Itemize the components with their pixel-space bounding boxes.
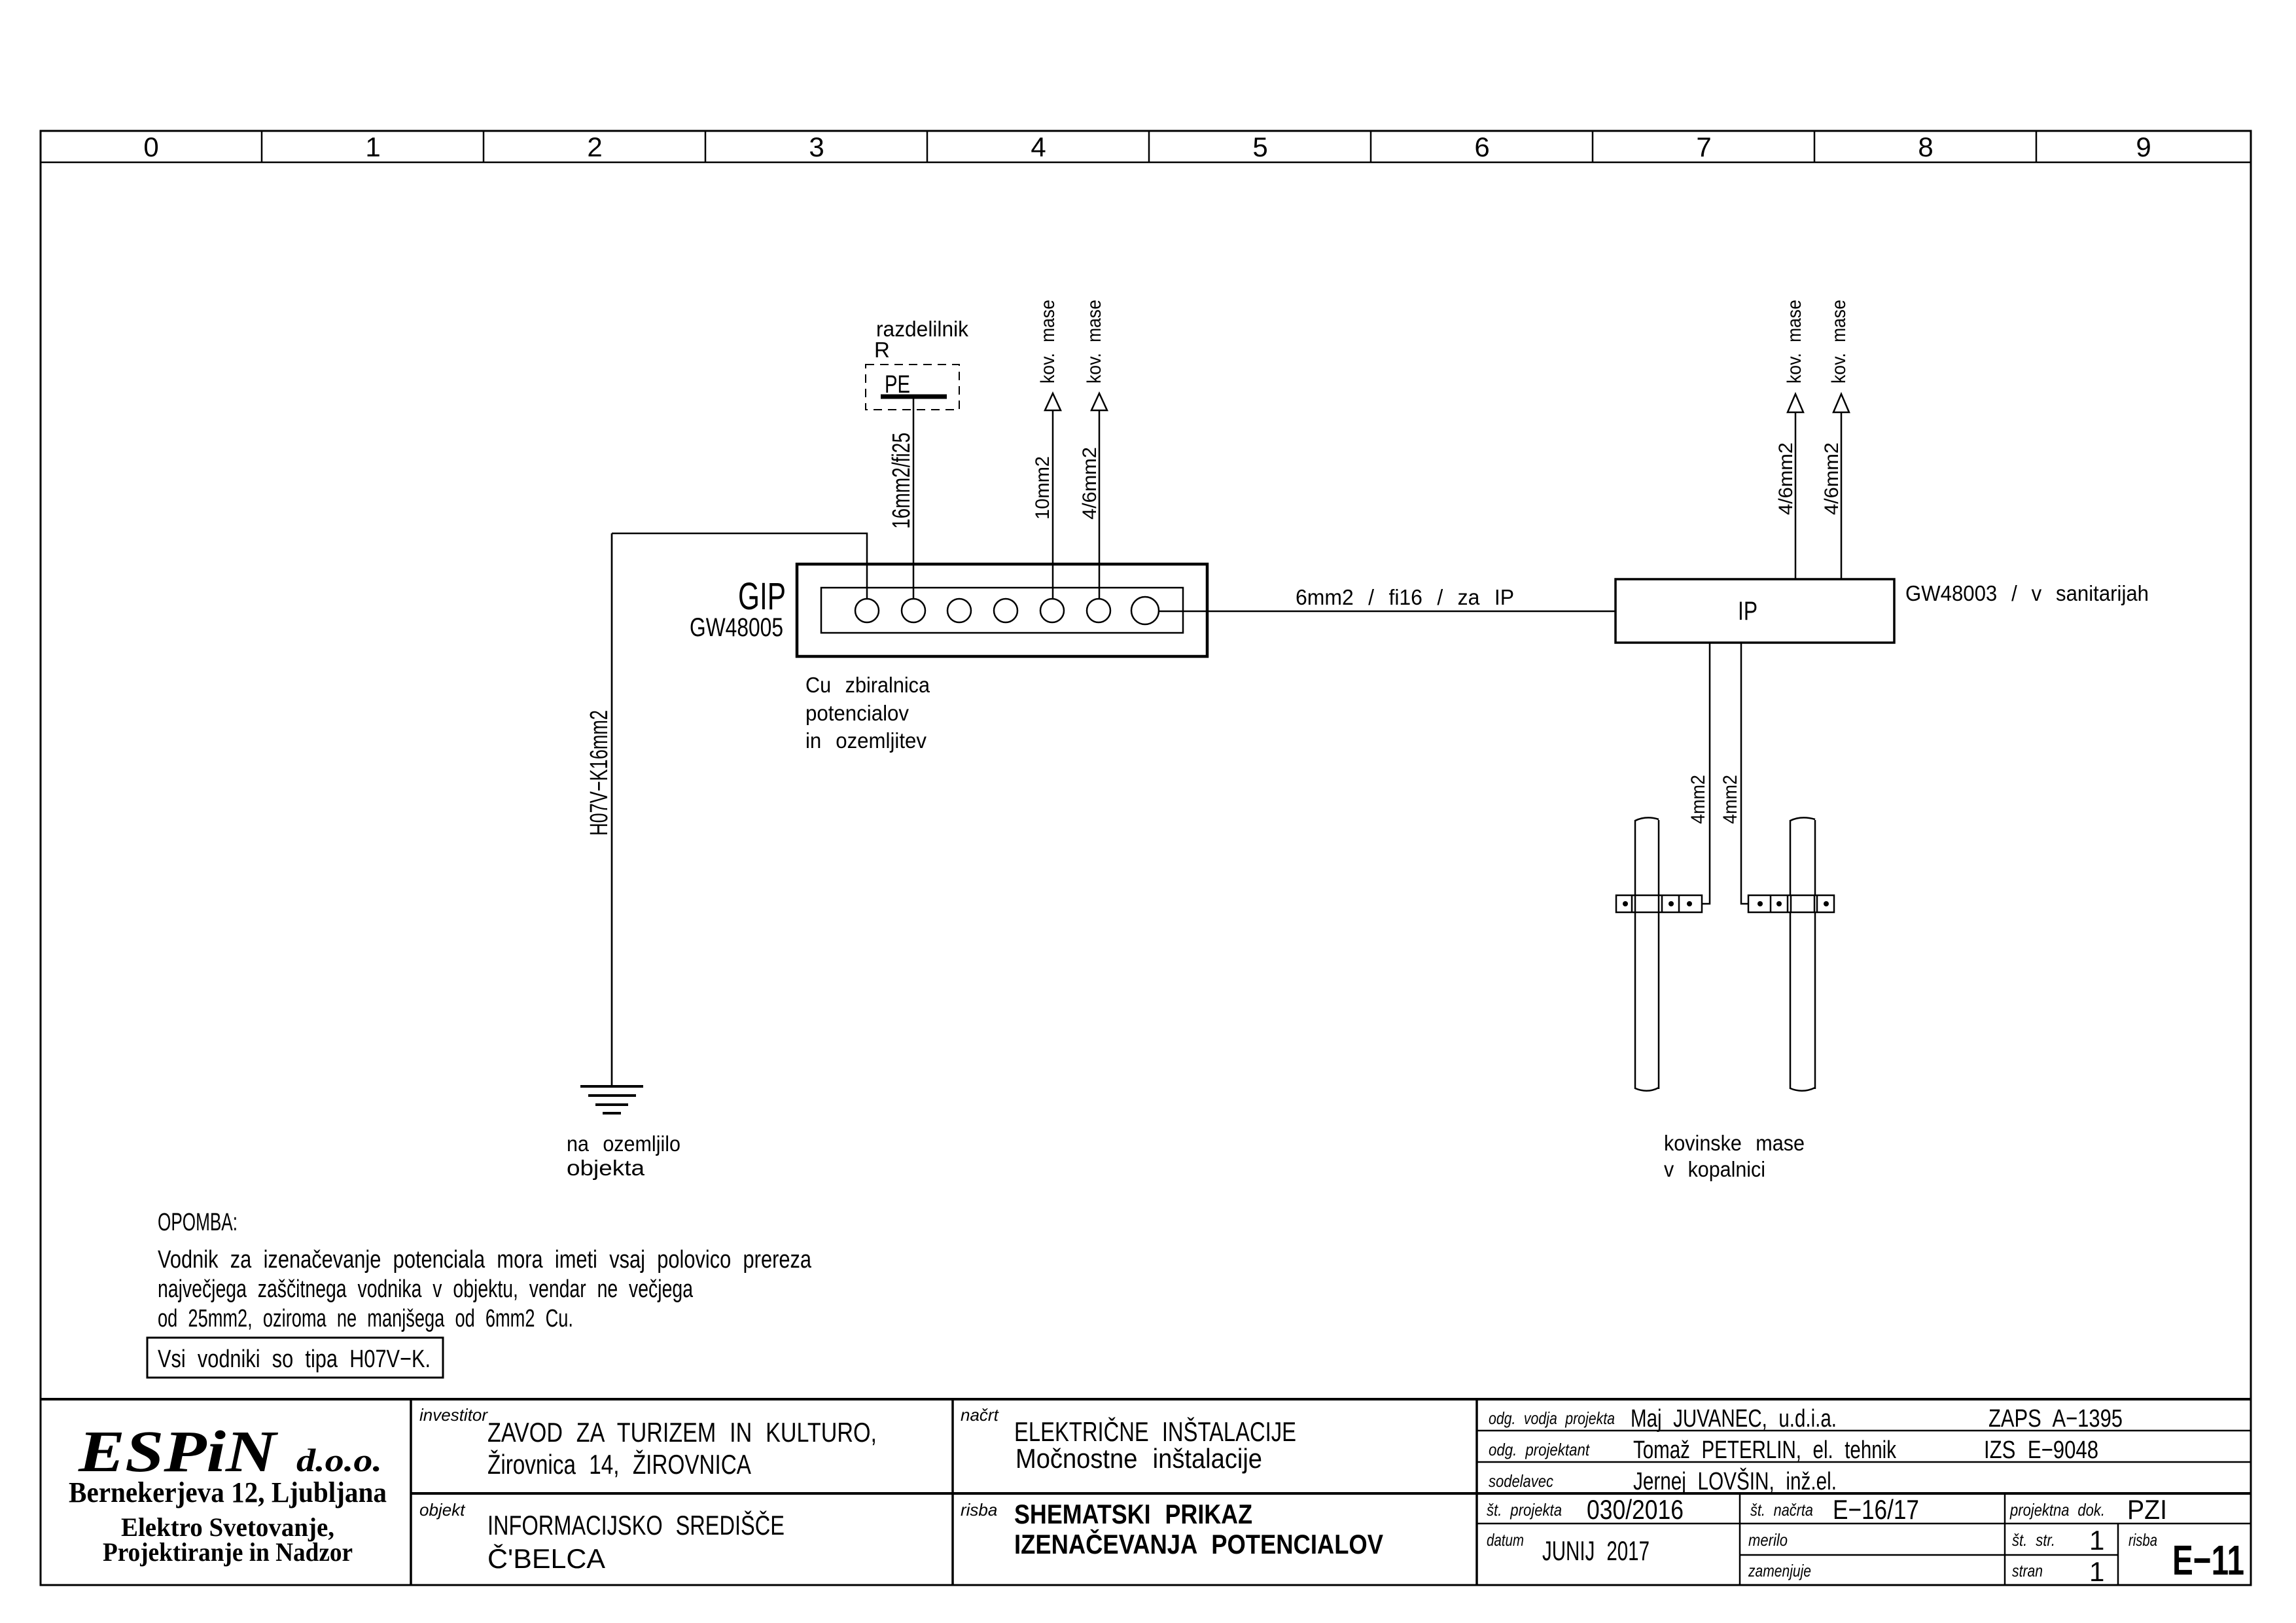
svg-text:ZAVOD ZA TURIZEM IN KULTURO,: ZAVOD ZA TURIZEM IN KULTURO,: [487, 1417, 877, 1448]
wire 4mm2 IP to left pipe clamp: [1691, 643, 1710, 904]
GIP terminal 3: [947, 599, 971, 622]
svg-text:R: R: [874, 338, 890, 362]
wire PE to GIP terminal 2: [913, 397, 915, 599]
svg-text:GW48005: GW48005: [690, 613, 783, 642]
ruler cell dividers: [262, 131, 2036, 162]
svg-text:št. str.: št. str.: [2012, 1530, 2055, 1550]
GIP terminal 4: [994, 599, 1017, 622]
svg-text:4/6mm2: 4/6mm2: [1821, 442, 1843, 515]
wire 4/6mm2 from IP (left): [1795, 412, 1797, 579]
svg-text:načrt: načrt: [961, 1405, 1000, 1425]
arrow to kov. mase (4/6mm2): [1091, 393, 1107, 410]
svg-text:največjega zaščitnega vodnika: največjega zaščitnega vodnika v objektu,…: [158, 1275, 694, 1303]
left metal pipe: [1635, 817, 1659, 1090]
svg-text:potencialov: potencialov: [805, 701, 909, 725]
svg-text:Tomaž PETERLIN, el. tehnik: Tomaž PETERLIN, el. tehnik: [1633, 1436, 1897, 1464]
right metal pipe: [1790, 817, 1815, 1090]
wire from GIP terminal 1 to earthing conductor: [612, 533, 867, 599]
svg-text:8: 8: [1918, 132, 1933, 162]
svg-text:0: 0: [143, 132, 158, 162]
svg-text:sodelavec: sodelavec: [1489, 1471, 1553, 1491]
ground (earth electrode): [580, 1086, 643, 1113]
svg-text:JUNIJ 2017: JUNIJ 2017: [1542, 1535, 1650, 1566]
svg-text:risba: risba: [961, 1500, 997, 1520]
svg-text:od 25mm2, oziroma ne manjšega: od 25mm2, oziroma ne manjšega od 6mm2 Cu…: [158, 1305, 573, 1332]
svg-text:4mm2: 4mm2: [1687, 775, 1709, 824]
svg-text:1: 1: [2089, 1556, 2104, 1587]
wire 4/6mm2 from IP (right): [1841, 412, 1843, 579]
svg-text:št. projekta: št. projekta: [1487, 1500, 1562, 1520]
arrow to kov. mase (IP right): [1833, 394, 1849, 412]
svg-text:Vsi vodniki so tipa H07V−K.: Vsi vodniki so tipa H07V−K.: [158, 1346, 431, 1373]
svg-text:kovinske mase: kovinske mase: [1664, 1131, 1805, 1155]
svg-text:in ozemljitev: in ozemljitev: [805, 728, 927, 753]
svg-text:objekt: objekt: [419, 1500, 466, 1520]
razdelilnik R dashed enclosure: [866, 365, 959, 410]
svg-text:risba: risba: [2128, 1530, 2157, 1550]
svg-text:kov. mase: kov. mase: [1084, 300, 1105, 383]
svg-text:projektna dok.: projektna dok.: [2009, 1500, 2105, 1520]
svg-text:GW48003 / v sanitarijah: GW48003 / v sanitarijah: [1905, 581, 2149, 605]
svg-text:IZENAČEVANJA POTENCIALOV: IZENAČEVANJA POTENCIALOV: [1014, 1528, 1383, 1560]
title block vertical dividers: [410, 1399, 412, 1585]
svg-text:na ozemljilo: na ozemljilo: [567, 1132, 680, 1156]
svg-text:10mm2: 10mm2: [1032, 456, 1053, 520]
svg-text:INFORMACIJSKO SREDIŠČE: INFORMACIJSKO SREDIŠČE: [487, 1510, 785, 1541]
svg-text:7: 7: [1696, 132, 1711, 162]
GIP terminal 1: [855, 599, 879, 622]
svg-text:030/2016: 030/2016: [1587, 1494, 1684, 1525]
GIP terminal 7: [1131, 597, 1159, 624]
svg-text:16mm2/fi25: 16mm2/fi25: [888, 433, 915, 529]
svg-text:kov. mase: kov. mase: [1037, 300, 1059, 383]
svg-text:Č'BELCA: Č'BELCA: [487, 1543, 605, 1574]
svg-text:odg. vodja projekta: odg. vodja projekta: [1489, 1408, 1615, 1428]
arrow to kov. mase (IP left): [1788, 394, 1803, 412]
svg-text:odg. projektant: odg. projektant: [1489, 1440, 1591, 1459]
svg-text:IP: IP: [1738, 597, 1757, 626]
svg-text:Močnostne inštalacije: Močnostne inštalacije: [1016, 1443, 1262, 1474]
svg-text:ZAPS A−1395: ZAPS A−1395: [1988, 1405, 2123, 1433]
svg-text:4/6mm2: 4/6mm2: [1079, 447, 1101, 520]
svg-text:zamenjuje: zamenjuje: [1748, 1561, 1811, 1580]
right table row lines: [1477, 1430, 2251, 1432]
svg-text:6: 6: [1474, 132, 1489, 162]
svg-text:kov. mase: kov. mase: [1828, 300, 1850, 383]
PE busbar: [881, 395, 947, 399]
svg-text:1: 1: [2089, 1525, 2104, 1556]
svg-text:SHEMATSKI PRIKAZ: SHEMATSKI PRIKAZ: [1014, 1499, 1252, 1529]
wire 6mm2 GIP to IP: [1159, 611, 1616, 613]
title block middle horizontal line: [411, 1492, 2251, 1495]
svg-text:4/6mm2: 4/6mm2: [1775, 442, 1797, 515]
svg-text:E−11: E−11: [2172, 1537, 2244, 1584]
wire 4mm2 IP to right pipe clamp: [1741, 643, 1761, 904]
ruler band bottom line: [41, 162, 2251, 164]
svg-text:merilo: merilo: [1748, 1530, 1788, 1550]
svg-text:d.o.o.: d.o.o.: [296, 1442, 382, 1478]
svg-text:v kopalnici: v kopalnici: [1664, 1157, 1765, 1181]
svg-text:objekta: objekta: [567, 1156, 645, 1180]
svg-text:PZI: PZI: [2127, 1494, 2167, 1525]
svg-text:2: 2: [587, 132, 602, 162]
svg-text:4: 4: [1031, 132, 1046, 162]
right pipe clamp: [1748, 895, 1834, 912]
GIP terminal 6: [1087, 599, 1110, 622]
svg-text:OPOMBA:: OPOMBA:: [158, 1209, 238, 1236]
svg-text:ESPiN: ESPiN: [78, 1419, 279, 1484]
busbar GIP inner bar: [821, 588, 1183, 633]
note box Vsi vodniki: [147, 1338, 443, 1378]
svg-text:Jernej LOVŠIN, inž.el.: Jernej LOVŠIN, inž.el.: [1633, 1467, 1837, 1495]
svg-text:E−16/17: E−16/17: [1833, 1494, 1919, 1525]
svg-text:GIP: GIP: [738, 575, 786, 618]
svg-text:Cu zbiralnica: Cu zbiralnica: [805, 673, 930, 697]
svg-text:Vodnik za izenačevanje potenci: Vodnik za izenačevanje potenciala mora i…: [158, 1246, 812, 1274]
svg-text:razdelilnik: razdelilnik: [876, 317, 968, 341]
right table column lines: [1739, 1493, 1741, 1585]
title block top line: [41, 1398, 2251, 1400]
svg-text:stran: stran: [2012, 1561, 2043, 1580]
busbar IP box: [1616, 579, 1894, 643]
GIP terminal 5: [1040, 599, 1064, 622]
svg-text:9: 9: [2136, 132, 2151, 162]
svg-text:4mm2: 4mm2: [1720, 775, 1741, 824]
svg-text:6mm2 / fi16 / za IP: 6mm2 / fi16 / za IP: [1296, 585, 1514, 609]
wire H07V-K16mm2 down to earth: [611, 533, 613, 1086]
arrow to kov. mase (10mm2): [1045, 393, 1061, 410]
svg-text:Maj JUVANEC, u.d.i.a.: Maj JUVANEC, u.d.i.a.: [1631, 1405, 1837, 1433]
svg-text:kov. mase: kov. mase: [1784, 300, 1805, 383]
svg-text:št. načrta: št. načrta: [1750, 1500, 1813, 1520]
svg-text:IZS E−9048: IZS E−9048: [1984, 1436, 2098, 1464]
svg-text:1: 1: [365, 132, 380, 162]
svg-text:Projektiranje in Nadzor: Projektiranje in Nadzor: [103, 1537, 353, 1567]
svg-text:H07V−K16mm2: H07V−K16mm2: [586, 710, 613, 836]
svg-text:5: 5: [1252, 132, 1267, 162]
GIP terminal 2: [902, 599, 925, 622]
svg-text:3: 3: [809, 132, 824, 162]
svg-text:ELEKTRIČNE INŠTALACIJE: ELEKTRIČNE INŠTALACIJE: [1014, 1416, 1296, 1447]
svg-text:investitor: investitor: [419, 1405, 488, 1425]
ruler numbers: [143, 132, 2151, 162]
busbar GIP GW48005 outer box: [797, 564, 1207, 656]
left pipe clamp: [1616, 895, 1702, 912]
svg-text:Bernekerjeva 12, Ljubljana: Bernekerjeva 12, Ljubljana: [69, 1476, 387, 1508]
wire 4/6mm2 to GIP terminal 6: [1099, 410, 1101, 599]
wire 10mm2 to GIP terminal 5: [1052, 410, 1054, 599]
svg-text:datum: datum: [1487, 1530, 1524, 1550]
svg-text:Žirovnica 14, ŽIROVNICA: Žirovnica 14, ŽIROVNICA: [487, 1449, 751, 1480]
